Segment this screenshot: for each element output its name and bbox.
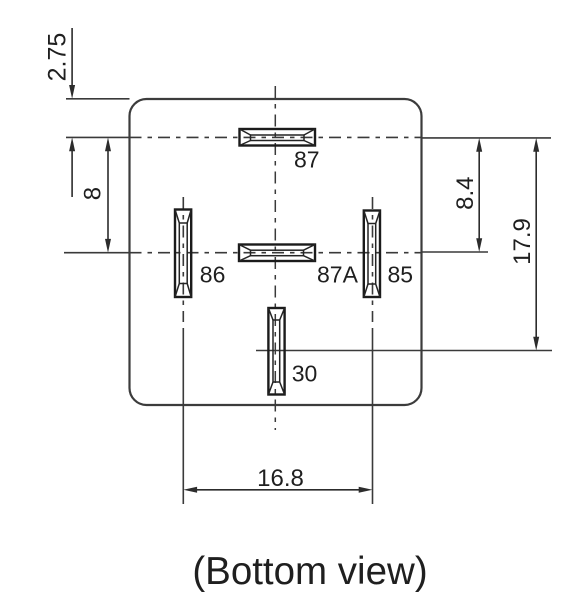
centerline through pin 86 xyxy=(182,197,184,322)
dimension 2.75 extension line (top edge extended) xyxy=(66,98,130,100)
pin 87 xyxy=(240,129,316,146)
svg-text:85: 85 xyxy=(388,262,414,288)
pin 30 xyxy=(268,308,284,395)
dimension 2.75 lower line with up arrow xyxy=(69,137,75,197)
svg-text:(Bottom view): (Bottom view) xyxy=(192,550,427,593)
svg-text:17.9: 17.9 xyxy=(509,218,536,265)
vertical centerline through pins 87, 87A, 30 xyxy=(274,86,276,430)
svg-text:30: 30 xyxy=(292,361,318,387)
centerline through pin 85 xyxy=(372,197,374,322)
dimension 16.8 line with two arrows xyxy=(183,487,372,493)
svg-text:87: 87 xyxy=(294,147,320,173)
svg-text:8: 8 xyxy=(79,187,106,200)
svg-text:86: 86 xyxy=(200,262,226,288)
horizontal centerline through pins 86, 87A, 85 (with extension lines) xyxy=(64,251,488,254)
horizontal extension line through pin 30 center xyxy=(256,350,552,352)
pin 86 xyxy=(175,210,191,298)
dimension 8 line with two arrows xyxy=(105,137,111,252)
svg-text:8.4: 8.4 xyxy=(452,177,479,210)
svg-text:2.75: 2.75 xyxy=(44,33,72,82)
dimension 17.9 line with two arrows xyxy=(533,138,539,351)
relay body outline xyxy=(130,99,422,405)
svg-text:16.8: 16.8 xyxy=(257,465,304,492)
dimension 8.4 line with two arrows xyxy=(476,138,482,252)
pin 85 xyxy=(364,211,380,298)
extension line below pin 85 (16.8 right) xyxy=(372,328,374,504)
dimension 2.75 upper line with down arrow xyxy=(69,28,75,99)
horizontal centerline through pin 87 (with extension lines) xyxy=(66,136,551,139)
pin 87A xyxy=(239,245,315,262)
svg-text:87A: 87A xyxy=(317,262,359,288)
extension line below pin 86 (16.8 left) xyxy=(182,328,184,504)
